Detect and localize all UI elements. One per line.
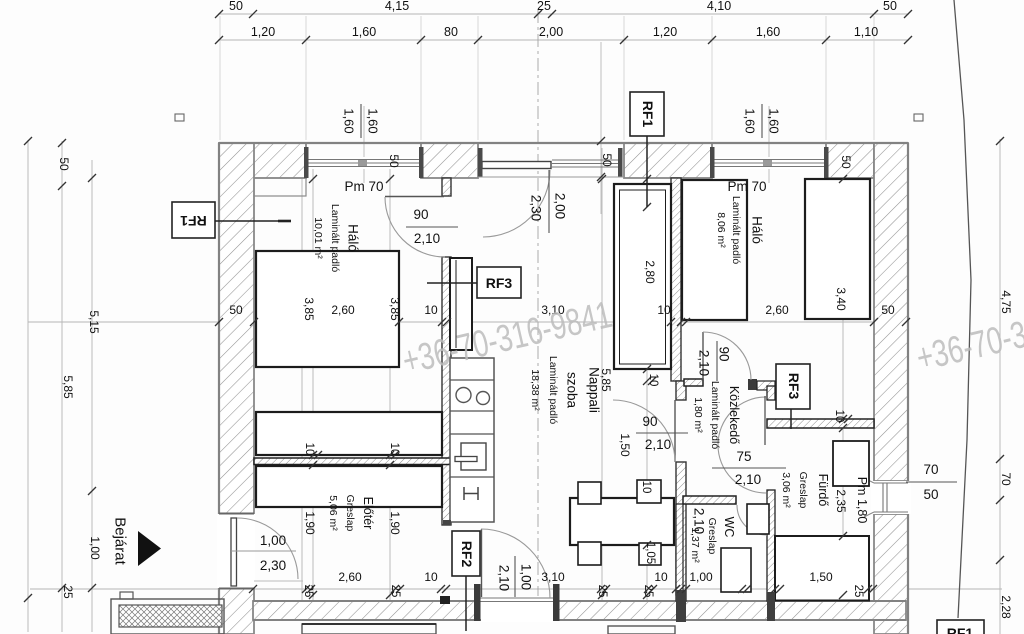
window jamb posts [304, 147, 309, 178]
room Eloter labels [327, 495, 375, 532]
tall cabinet at kitchen wall [450, 258, 472, 350]
svg-text:50: 50 [229, 303, 243, 317]
window label Furdo 70/50 [906, 462, 957, 502]
bed Halo2 left (single) [682, 180, 747, 320]
svg-text:RF1: RF1 [947, 625, 974, 634]
svg-text:1,90: 1,90 [303, 511, 317, 535]
wall W2b between Nappali / Kozlekedo,WC [676, 381, 686, 601]
svg-text:1,20: 1,20 [251, 25, 275, 39]
svg-text:1,60: 1,60 [352, 25, 376, 39]
svg-text:RF1: RF1 [640, 101, 656, 128]
svg-text:Nappali: Nappali [587, 367, 602, 413]
site boundary line right [954, 0, 971, 618]
right chain texts [999, 290, 1013, 619]
svg-text:50: 50 [883, 0, 897, 13]
left chain texts [57, 157, 102, 599]
door label terrace 1,00/2,10 rotated [497, 556, 534, 597]
top dimension texts row2 [251, 25, 878, 39]
svg-text:10: 10 [424, 570, 438, 584]
svg-text:2,10: 2,10 [497, 565, 512, 591]
svg-text:RF2: RF2 [459, 541, 475, 568]
svg-text:1,05: 1,05 [644, 542, 656, 564]
top wall with hatching [219, 143, 908, 634]
svg-text:2,60: 2,60 [338, 570, 362, 584]
door label Nappali 90/2,10 [636, 414, 688, 452]
top dimension texts row1 [229, 0, 897, 13]
partition P3 Kozlekedo / WC [683, 496, 736, 504]
svg-text:2,00: 2,00 [553, 193, 568, 219]
wall W2 between Nappali / Halo2 [671, 178, 681, 381]
wardrobe row south (Eloter) [256, 466, 442, 507]
svg-text:5,15: 5,15 [87, 310, 101, 334]
washbasin WC [747, 504, 769, 534]
svg-text:25: 25 [389, 585, 401, 598]
svg-text:3,10: 3,10 [541, 570, 565, 584]
door label entrance 1,00/2,30 [231, 533, 296, 573]
svg-text:25: 25 [596, 585, 608, 598]
room WC labels [689, 517, 736, 564]
tall wardrobe Nappali [614, 184, 671, 369]
chair SW [578, 542, 601, 565]
svg-text:3,85: 3,85 [302, 297, 316, 321]
svg-text:75: 75 [736, 449, 751, 464]
svg-text:Laminált padló: Laminált padló [547, 356, 559, 424]
right wall [874, 143, 908, 481]
partition P5 Halo2 niche / Furdo [767, 419, 874, 428]
ticks left chains [24, 137, 96, 602]
svg-text:Pm 70: Pm 70 [344, 179, 383, 194]
chair NE [637, 480, 661, 503]
wall W1 between Halo1 / Nappali+kitchen [442, 178, 451, 525]
door WC swing [737, 505, 767, 535]
room Halo2 labels [715, 196, 765, 264]
room Halo1 labels [312, 204, 361, 272]
svg-text:25: 25 [852, 585, 864, 598]
svg-text:3,40: 3,40 [834, 287, 848, 311]
svg-text:1,60: 1,60 [342, 108, 357, 133]
svg-text:Laminált padló: Laminált padló [709, 381, 721, 449]
bottom horizontal chain texts [302, 570, 864, 597]
svg-text:50: 50 [229, 0, 243, 13]
bathtub [775, 536, 869, 601]
svg-text:Laminált padló: Laminált padló [730, 196, 742, 264]
svg-text:1,20: 1,20 [653, 25, 677, 39]
svg-text:RF1: RF1 [180, 213, 207, 229]
bed Halo1 [256, 251, 399, 367]
door Halo2 (90/2,10) leaf and swing [703, 332, 751, 380]
svg-text:50: 50 [839, 155, 853, 169]
terrace door leaf and swing [481, 529, 550, 598]
door label Halo2 90/2,10 rotated [697, 341, 732, 381]
mid horizontal chain texts [229, 303, 895, 317]
svg-text:1,60: 1,60 [743, 108, 758, 133]
svg-text:10: 10 [424, 303, 438, 317]
svg-text:3,85: 3,85 [388, 297, 402, 321]
cooker [461, 443, 486, 470]
svg-text:50: 50 [600, 153, 614, 167]
svg-text:1,60: 1,60 [366, 108, 381, 133]
svg-text:1,00: 1,00 [519, 564, 534, 590]
svg-text:2,10: 2,10 [414, 231, 440, 246]
Bejarat platform with mat [111, 592, 224, 634]
door label Furdo 75/2,10 [712, 449, 786, 487]
ticks right chain [996, 137, 1004, 564]
partition P4 Kozlekedo,WC / Furdo [767, 386, 775, 601]
window label 1,60/1,60 left [342, 104, 381, 138]
svg-text:1,37 m²: 1,37 m² [689, 527, 701, 563]
svg-text:Közlekedő: Közlekedő [727, 386, 741, 444]
ticks mid horizontal chain [215, 318, 910, 326]
svg-text:50: 50 [57, 157, 71, 171]
svg-text:10: 10 [657, 303, 671, 317]
svg-text:Előtér: Előtér [361, 497, 375, 530]
svg-text:4,15: 4,15 [385, 0, 409, 13]
door Halo1 (90/2,10) leaf and swing [385, 197, 445, 258]
svg-text:25: 25 [302, 585, 314, 598]
svg-text:25: 25 [642, 585, 654, 598]
door Nappali-Kozlekedo (90/2,10) [613, 400, 675, 462]
svg-text:90: 90 [413, 207, 428, 222]
svg-text:Pm 1,80: Pm 1,80 [855, 477, 869, 524]
svg-text:Greslap: Greslap [797, 472, 809, 509]
ticks internal vertical chains [309, 137, 852, 599]
partition P2 Halo2 / Kozlekedo [684, 379, 775, 390]
svg-text:8,06 m²: 8,06 m² [715, 212, 727, 248]
svg-text:70: 70 [923, 462, 938, 477]
svg-text:10: 10 [388, 443, 400, 456]
svg-text:50: 50 [923, 487, 938, 502]
svg-text:Greslap: Greslap [706, 518, 718, 555]
toilet [721, 548, 751, 592]
svg-text:Fürdő: Fürdő [816, 474, 830, 507]
svg-text:4,10: 4,10 [707, 0, 731, 13]
svg-text:1,90: 1,90 [388, 511, 402, 535]
svg-text:1,50: 1,50 [809, 570, 833, 584]
svg-text:2,30: 2,30 [260, 558, 286, 573]
structural post at wall W1 foot [440, 596, 450, 604]
svg-text:2,60: 2,60 [765, 303, 789, 317]
svg-text:2,60: 2,60 [331, 303, 355, 317]
svg-text:70: 70 [999, 472, 1013, 486]
svg-text:szoba: szoba [565, 372, 580, 409]
svg-text:50: 50 [387, 154, 401, 168]
window W2 top-right (1,60/1,60) [712, 157, 826, 169]
bed Halo2 right (single) [805, 179, 870, 319]
balcony door jamb posts [478, 148, 483, 177]
door label Halo1 90/2,10 [406, 207, 458, 246]
RF3 label left [427, 267, 521, 298]
svg-text:1,00: 1,00 [88, 536, 102, 560]
RF1 label left (rotated 180) [172, 202, 291, 238]
svg-text:RF3: RF3 [786, 373, 802, 400]
svg-text:1,00: 1,00 [260, 533, 286, 548]
room Nappali labels [529, 356, 602, 424]
svg-text:Bejárat: Bejárat [112, 517, 129, 565]
svg-text:18,38 m²: 18,38 m² [529, 369, 541, 411]
RF4 box bottom right (clipped) [937, 620, 984, 634]
svg-text:1,80 m²: 1,80 m² [692, 397, 704, 433]
svg-text:90: 90 [642, 414, 657, 429]
svg-text:1,10: 1,10 [854, 25, 878, 39]
inner corner plaster notch top-left [254, 178, 306, 196]
door Furdo (75/2,10) swing [718, 397, 766, 493]
window Furdo in right wall (70/50) [864, 478, 911, 517]
centre axis dash-dot line [537, 10, 539, 604]
partition P1 between Halo1 / Eloter [254, 458, 451, 465]
entrance arrow [138, 531, 161, 566]
svg-text:10: 10 [640, 481, 652, 494]
section marker left [175, 114, 184, 121]
entrance door opening in left wall [217, 514, 298, 588]
svg-text:10: 10 [654, 570, 668, 584]
ticks top row1 [215, 10, 912, 18]
washbasin Furdo [833, 441, 869, 486]
svg-text:25: 25 [537, 0, 551, 13]
svg-text:5,85: 5,85 [61, 375, 75, 399]
ticks bottom horizontal chain [249, 585, 877, 593]
svg-text:RF3: RF3 [486, 275, 513, 291]
svg-text:10: 10 [833, 410, 845, 423]
room Furdo labels [780, 472, 830, 509]
wall posts crossing bottom wall [676, 590, 686, 622]
svg-text:2,10: 2,10 [697, 350, 712, 376]
svg-text:Pm 70: Pm 70 [727, 179, 766, 194]
boiler H symbol [463, 487, 465, 500]
svg-text:1,60: 1,60 [767, 108, 782, 133]
WC west wall [676, 504, 683, 595]
door label balcony 2,00/2,30 [529, 170, 568, 233]
svg-text:Greslap: Greslap [344, 495, 356, 532]
svg-text:10,01 m²: 10,01 m² [312, 217, 324, 259]
kitchen counter column [450, 358, 494, 522]
balcony door (2,00/2,30) leaf along wall [482, 162, 551, 238]
svg-text:WC: WC [722, 517, 736, 538]
svg-text:1,00: 1,00 [689, 570, 713, 584]
svg-text:50: 50 [881, 303, 895, 317]
svg-text:10: 10 [647, 374, 659, 387]
RF2 label (rotated 90) [452, 531, 480, 631]
svg-text:2,00: 2,00 [539, 25, 563, 39]
svg-text:2,35: 2,35 [834, 489, 848, 513]
bottom wall [253, 601, 479, 620]
window W1 top-left (1,60/1,60) [306, 157, 421, 169]
svg-text:90: 90 [717, 346, 732, 361]
svg-text:Laminált padló: Laminált padló [329, 204, 341, 272]
svg-text:80: 80 [444, 25, 458, 39]
svg-text:2,28: 2,28 [999, 595, 1013, 619]
RF3 label right (rotated 90) [776, 364, 810, 429]
room Kozlekedo labels [692, 381, 741, 449]
chair NW [578, 482, 601, 504]
svg-text:3,06 m²: 3,06 m² [780, 472, 792, 508]
svg-text:Háló: Háló [346, 224, 361, 252]
fixed glazing next to balcony door [552, 160, 621, 167]
window label 1,60/1,60 right [743, 104, 782, 138]
dining table [570, 498, 674, 545]
svg-text:2,80: 2,80 [643, 260, 657, 284]
svg-text:1,60: 1,60 [756, 25, 780, 39]
svg-text:5,06 m²: 5,06 m² [327, 495, 339, 531]
svg-text:2,30: 2,30 [529, 195, 544, 221]
svg-text:Háló: Háló [750, 216, 765, 244]
svg-text:1,50: 1,50 [618, 433, 632, 457]
svg-text:4,75: 4,75 [999, 290, 1013, 314]
internal vertical chain texts [302, 260, 848, 564]
wardrobe row north (Halo1) [256, 412, 442, 455]
ticks top row2 [215, 36, 912, 44]
RF1 label top (rotated 90) [630, 92, 664, 207]
left wall [219, 143, 254, 514]
svg-text:2,10: 2,10 [735, 472, 761, 487]
section marker right [914, 114, 923, 121]
svg-text:10: 10 [303, 443, 315, 456]
svg-text:2,10: 2,10 [645, 437, 671, 452]
kitchen sink twin bowls [456, 388, 471, 403]
terrace outlines below bottom wall [302, 624, 675, 634]
chair SE [639, 543, 661, 565]
terrace door opening in bottom wall (1,00/2,10) [474, 584, 560, 622]
svg-text:25: 25 [61, 585, 75, 599]
